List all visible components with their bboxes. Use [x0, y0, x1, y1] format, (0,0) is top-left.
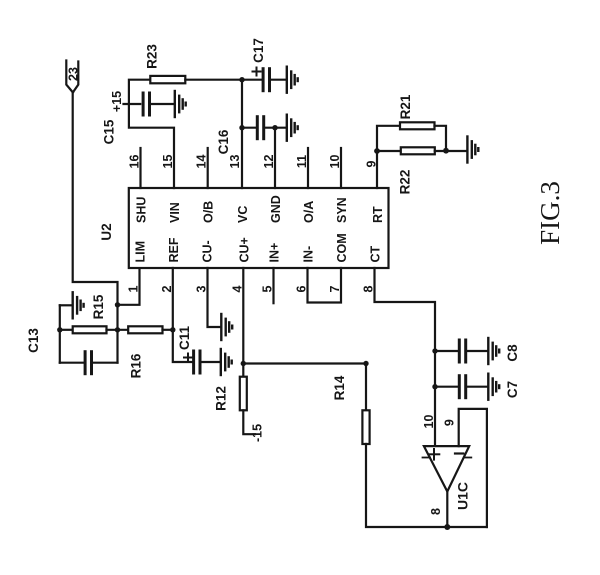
junction VC/C16 row: [239, 125, 244, 130]
junction rail left: [57, 327, 62, 332]
svg-text:U1C: U1C: [455, 482, 471, 510]
pin 4 CU+ vertical to R12: [242, 268, 244, 377]
svg-text:8: 8: [362, 285, 376, 292]
wire to C8: [435, 350, 459, 352]
svg-text:C16: C16: [216, 129, 231, 154]
svg-text:SHU: SHU: [135, 197, 149, 223]
wire C17 to ground: [270, 79, 286, 81]
plus sign C11: [184, 354, 192, 362]
capacitor C17 (electrolytic): [263, 69, 269, 91]
wire R23 right to VC node: [185, 79, 242, 81]
op-amp U1C triangle: [424, 446, 469, 491]
resistor R16: [128, 326, 162, 333]
junction R21/R22 right: [443, 148, 449, 154]
rail left end to R15: [60, 329, 73, 331]
svg-text:GND: GND: [269, 195, 283, 223]
wire +15 stem to C15: [124, 103, 141, 105]
junction C8: [432, 348, 437, 353]
svg-text:9: 9: [443, 419, 457, 426]
junction pin12/C16: [272, 125, 277, 130]
svg-text:4: 4: [231, 285, 245, 292]
wire R22 to ground junction: [435, 150, 466, 152]
node 23 terminal flag: [66, 61, 78, 93]
svg-text:U2: U2: [99, 223, 114, 240]
svg-text:RT: RT: [371, 206, 385, 223]
svg-text:CT: CT: [369, 245, 383, 262]
wire R14 bottom to output rail: [366, 444, 487, 527]
pin 9 stub to R21/R22: [376, 151, 378, 188]
wire C11 to ground: [200, 361, 220, 363]
svg-text:11: 11: [295, 155, 309, 168]
svg-text:3: 3: [195, 285, 209, 292]
wire pin 3 CU- to ground: [208, 268, 221, 327]
wire pin4 node to R14 top: [243, 362, 366, 364]
svg-text:-15: -15: [251, 424, 265, 442]
wire C13 loop left: [60, 362, 85, 364]
junction pin9: [374, 148, 380, 154]
wire pin6-pin7 jumper: [308, 268, 342, 303]
svg-text:R23: R23: [145, 44, 160, 69]
junction R14 top: [363, 361, 368, 366]
junction VC/R23/C17: [239, 77, 244, 82]
wire pin1 LIM to node-23 vertical: [118, 268, 140, 305]
svg-text:C15: C15: [102, 119, 117, 144]
svg-text:10: 10: [422, 415, 436, 429]
ground at C7: [488, 374, 499, 400]
capacitor C11 (electrolytic): [194, 351, 200, 373]
op-amp minus input mark: [455, 452, 463, 454]
svg-text:6: 6: [295, 285, 309, 292]
capacitor C8: [459, 340, 465, 362]
svg-text:5: 5: [261, 285, 275, 292]
wire R21 right down to junction: [435, 126, 447, 151]
svg-text:7: 7: [328, 285, 342, 292]
wire R14 top lead: [365, 364, 367, 411]
junction REF/rail: [170, 327, 175, 332]
svg-text:FIG.3: FIG.3: [535, 181, 565, 245]
wire pin 8 CT to C8/C7/op-amp: [375, 268, 436, 446]
IC U2 body: [129, 188, 389, 268]
tick on right edge: [464, 457, 471, 459]
pin 16 stub: [139, 148, 141, 188]
wire from node 23 down and over to R15/R16 junction: [73, 92, 118, 362]
ground at C8: [488, 338, 499, 364]
pin 5 stub: [272, 268, 274, 303]
pin 12 stub to C16 row: [274, 128, 276, 188]
svg-text:8: 8: [429, 508, 443, 515]
plus sign C17: [253, 68, 261, 76]
svg-text:R21: R21: [398, 94, 413, 119]
svg-text:C13: C13: [26, 328, 41, 353]
svg-text:R15: R15: [91, 294, 106, 319]
tick on left edge: [423, 457, 431, 459]
wire VC node to C17: [242, 79, 263, 81]
svg-text:CU+: CU+: [237, 237, 251, 262]
ground at C16: [287, 115, 298, 141]
svg-text:O/A: O/A: [302, 201, 316, 223]
svg-text:R12: R12: [214, 386, 229, 411]
wire C16 to pin12 node and ground: [264, 127, 286, 129]
wire R15-left vertical: [59, 305, 61, 362]
resistor R21: [400, 122, 435, 129]
svg-text:14: 14: [195, 155, 209, 169]
resistor R15: [73, 326, 107, 333]
ground at R21/R22: [467, 137, 478, 163]
svg-text:VC: VC: [236, 206, 250, 223]
pin 14 stub: [207, 148, 209, 188]
wire pin9 to R22: [377, 150, 401, 152]
ground stem at R15 left: [60, 304, 72, 306]
svg-text:SYN: SYN: [335, 197, 349, 223]
wire R15 to R16: [107, 329, 129, 331]
svg-text:23: 23: [66, 67, 80, 81]
wire op-amp output stub: [446, 492, 448, 528]
svg-text:16: 16: [128, 155, 142, 169]
ground at C11: [221, 349, 232, 375]
resistor R22: [401, 147, 435, 154]
svg-text:C11: C11: [177, 326, 192, 351]
ground at R15 left: [73, 292, 84, 318]
capacitor C7: [459, 376, 465, 398]
svg-text:CU-: CU-: [201, 240, 215, 262]
wire op-amp pin 9 feedback loop: [459, 409, 487, 527]
svg-text:C8: C8: [505, 344, 520, 362]
op-amp plus input mark: [429, 449, 440, 460]
wire C15 to ground: [150, 103, 174, 105]
wire R21 loop: [377, 126, 400, 151]
svg-text:R16: R16: [129, 353, 144, 378]
svg-text:13: 13: [228, 155, 242, 169]
wire C7 to ground: [466, 386, 487, 388]
svg-text:C17: C17: [251, 38, 266, 63]
ground at C15: [175, 91, 186, 117]
svg-text:1: 1: [127, 285, 141, 292]
svg-text:R22: R22: [398, 170, 413, 195]
ground at C17: [287, 67, 298, 93]
pin 13 stub / VC net vertical: [241, 80, 243, 188]
svg-text:9: 9: [365, 160, 379, 167]
svg-text:2: 2: [160, 285, 174, 292]
resistor R14: [362, 410, 369, 444]
junction pin1/wire23: [115, 302, 120, 307]
svg-text:10: 10: [328, 155, 342, 169]
junction C7: [432, 384, 437, 389]
resistor R23: [150, 76, 185, 83]
svg-text:REF: REF: [167, 237, 181, 262]
pin 11 stub: [307, 148, 309, 188]
wire VC node to C16: [242, 127, 257, 129]
svg-text:12: 12: [262, 155, 276, 169]
svg-text:IN+: IN+: [268, 243, 282, 263]
svg-text:+15: +15: [110, 91, 124, 112]
svg-text:C7: C7: [505, 381, 520, 398]
pin 15 stub / wire to R23 left net: [129, 80, 174, 188]
capacitor C13: [85, 352, 91, 374]
junction pin4/R14 wire: [241, 361, 246, 366]
wire R12 to -15 terminal: [243, 410, 255, 434]
capacitor C15: [143, 93, 149, 115]
svg-text:R14: R14: [332, 375, 347, 400]
svg-text:LIM: LIM: [134, 241, 148, 263]
junction rail middle: [115, 327, 120, 332]
resistor R12: [240, 377, 247, 411]
svg-text:O/B: O/B: [202, 201, 216, 223]
wire to C7: [435, 386, 459, 388]
wire C13 right to rail junction: [92, 362, 118, 364]
pin 1 bottom stub is drawn above; pin 2 REF net vertical: [173, 268, 194, 362]
svg-text:15: 15: [161, 155, 175, 169]
pin 10 stub: [340, 148, 342, 188]
ground at pin3: [221, 314, 232, 340]
svg-text:COM: COM: [335, 233, 349, 262]
capacitor C16: [257, 117, 263, 139]
svg-text:IN-: IN-: [302, 246, 316, 263]
junction op-amp output: [444, 524, 450, 530]
wire C8 to ground: [466, 350, 487, 352]
wire R16 to pin2: [163, 329, 173, 331]
svg-text:VIN: VIN: [168, 202, 182, 223]
